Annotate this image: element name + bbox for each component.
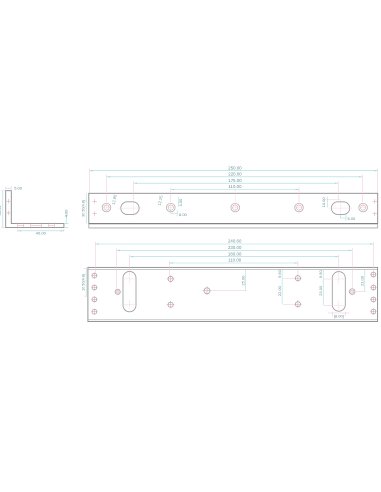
extension line circle2 (110.00) [170, 187, 172, 202]
right hole column (4 holes) [370, 271, 376, 314]
svg-text:[8.00]: [8.00] [334, 313, 344, 318]
hole pair at x=297.9 lower [294, 300, 302, 308]
L-bracket leg hole tick 2 [23, 223, 25, 229]
circle hole 2 (top view) [166, 203, 175, 212]
L-bracket hole center mark upper [5, 199, 11, 203]
slot 2 (top view obround) [329, 199, 353, 216]
svg-text:10.00: 10.00 [321, 197, 326, 208]
L-bracket leg hole tick 5 [48, 223, 50, 229]
slot 1 (bottom view, vertical obround) [123, 271, 136, 311]
hole pair at x=297.9 upper [294, 274, 302, 282]
svg-text:25.00: 25.00 [240, 275, 245, 286]
svg-text:4.00: 4.00 [63, 209, 68, 218]
svg-text:12.25: 12.25 [157, 194, 164, 206]
dimension 220.00 (top view) [107, 171, 363, 177]
center hole (bottom view) [203, 286, 212, 295]
dimension 8.00 (circle2) [171, 209, 188, 217]
svg-text:175.00: 175.00 [228, 178, 242, 183]
svg-text:110.00: 110.00 [228, 258, 242, 263]
svg-text:10.50(4.8): 10.50(4.8) [81, 274, 85, 291]
dimension 9.50/22.00 (hole pair x=297.9) [277, 269, 294, 304]
svg-text:5.00: 5.00 [348, 216, 357, 221]
extension line circle1 (220.00) [106, 175, 108, 203]
top plate bottom strip [89, 223, 378, 225]
extension line slot1 (180.00) [129, 255, 131, 275]
svg-text:22.00: 22.00 [277, 285, 282, 296]
svg-text:23.00: 23.00 [318, 285, 323, 296]
L-bracket leg hole tick 3 [30, 223, 32, 229]
svg-text:9.50: 9.50 [277, 269, 282, 278]
hole pair at x=170.6 upper [167, 275, 175, 283]
extension line slot1 (175.00) [133, 181, 135, 199]
dimension 250.00 (top view) [89, 165, 377, 171]
svg-text:230.00: 230.00 [228, 245, 242, 250]
dimension 180.00 (bottom view) [130, 251, 339, 257]
svg-text:30.50: 30.50 [0, 205, 2, 216]
dimension 25.00 (center hole) [211, 269, 246, 290]
dimension 40.00 (L-bracket bottom) [18, 229, 64, 236]
dimension 240.60 (bottom view) [95, 239, 373, 245]
extension line small hole right (230.00) [351, 248, 353, 288]
dimension 21.00 (hole right of slot2) [356, 269, 365, 291]
svg-text:8.00: 8.00 [179, 212, 188, 217]
bottom plate outline [88, 267, 378, 321]
dimension 30.50 (L-bracket left) [0, 191, 5, 228]
svg-text:21.00: 21.00 [360, 275, 365, 286]
L-bracket hole center mark lower [5, 211, 11, 215]
dimension 4.50 (circle2 vertical) [178, 197, 183, 207]
extension line left column (240.60) [94, 242, 96, 273]
extension line right column (240.60) [372, 242, 374, 272]
left hole column (4 holes) [91, 273, 97, 315]
dimension 9.50/23.00 (slot2 crosses) [318, 269, 333, 305]
dimension 110.00 (bottom view) [169, 258, 298, 264]
extension line slot2 (180.00) [338, 255, 340, 275]
dimension 230.00 (bottom view) [117, 245, 353, 251]
svg-text:250.00: 250.00 [228, 165, 242, 170]
extension line circle3 centerline [234, 188, 236, 203]
small hole right of slot2 [348, 288, 356, 296]
L-bracket leg hole tick 6 [54, 223, 56, 229]
svg-text:4.50: 4.50 [178, 198, 183, 207]
small hole left of slot1 [114, 288, 122, 296]
circle hole 1 (top view) [102, 203, 111, 212]
L-bracket leg hole tick 4 [41, 223, 43, 229]
extension line circle4 (110.00) [298, 187, 300, 202]
svg-text:9.50: 9.50 [318, 270, 323, 279]
svg-text:40.00: 40.00 [36, 230, 47, 235]
svg-text:12.95: 12.95 [111, 193, 118, 205]
circle hole 5 (top view) [359, 203, 368, 212]
bottom plate inner bottom edge line [88, 319, 378, 321]
extension line left edge (250.00) [88, 169, 90, 193]
extension line slot2 (175.00) [337, 181, 339, 199]
svg-text:5.00: 5.00 [14, 185, 23, 190]
top plate outline [89, 193, 378, 223]
dimension 110.00 (top view) [171, 184, 299, 190]
dimension 4.00 (L-bracket leg thickness, right) [63, 209, 68, 228]
extension line circle5 (220.00) [362, 175, 364, 203]
extension line right edge (250.00) [377, 169, 379, 193]
dimension 5.00 (slot2 bottom) [341, 215, 357, 221]
dimension 10.00 (slot2 vertical) [321, 197, 340, 208]
svg-text:240.60: 240.60 [228, 239, 242, 244]
L-bracket leg tiny red dims [18, 225, 54, 227]
L-bracket leg hole tick 1 [17, 223, 19, 229]
hole pair at x=170.6 lower [167, 301, 175, 309]
slot 1 (top view obround) [118, 199, 142, 216]
label 30.50(4.8) left of top plate [82, 193, 87, 223]
extension line pair right (110.00) [297, 261, 299, 275]
L-bracket section view outline [6, 191, 64, 228]
label 10.50(4.8) left of bottom plate [81, 267, 89, 297]
bottom plate inner top edge line [88, 268, 378, 270]
extension line small hole left (230.00) [116, 248, 118, 288]
dimension [8.00] (slot2 width) [328, 312, 350, 319]
svg-text:30.50(4.8): 30.50(4.8) [82, 200, 86, 217]
right edge hole center marks (top view) [373, 199, 377, 216]
dimension 175.00 (top view) [134, 178, 339, 184]
svg-text:180.00: 180.00 [228, 251, 242, 256]
extension line pair left (110.00) [168, 261, 170, 276]
circle hole 4 (top view) [294, 203, 303, 212]
dimension 5.00 (L-bracket top) [6, 185, 23, 190]
circle hole 3 (top view) [231, 203, 240, 212]
slot 2 (bottom view, vertical obround) [332, 272, 345, 312]
svg-text:220.00: 220.00 [228, 171, 242, 176]
left edge hole center marks (top view) [93, 199, 97, 216]
